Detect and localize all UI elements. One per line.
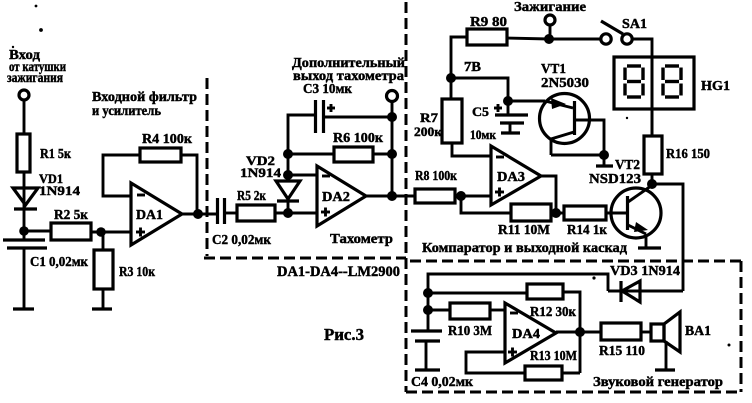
resistor R8 — [392, 169, 491, 203]
svg-text:C2 0,02мк: C2 0,02мк — [212, 233, 272, 248]
node junction — [551, 208, 561, 218]
wire: dashed bottom of left box — [204, 257, 406, 260]
wire: DA1 output — [182, 213, 217, 216]
svg-text:и усилитель: и усилитель — [92, 104, 162, 119]
op-amp DA2 — [317, 166, 366, 226]
svg-text:DA4: DA4 — [512, 327, 540, 342]
wire: dashed vertical divider — [405, 2, 408, 392]
svg-text:DA1: DA1 — [136, 208, 163, 223]
svg-text:R2 5к: R2 5к — [54, 208, 89, 223]
node junction — [446, 73, 456, 83]
svg-text:R14 1к: R14 1к — [567, 223, 608, 238]
speaker BA1 — [651, 312, 711, 370]
wire: R9 right to switch — [507, 38, 601, 39]
node: input terminal label — [7, 48, 66, 86]
svg-text:R10 3М: R10 3М — [448, 324, 492, 339]
wire — [391, 101, 394, 196]
svg-text:C4 0,02мк: C4 0,02мк — [411, 375, 474, 390]
svg-text:R4 100к: R4 100к — [142, 132, 193, 147]
node junction — [283, 208, 293, 218]
wire: oscillator top rail — [428, 274, 608, 330]
node junction — [575, 327, 585, 337]
resistor R5 — [237, 189, 275, 221]
svg-text:1N914: 1N914 — [240, 165, 282, 180]
diode VD3 — [608, 264, 683, 302]
svg-text:NSD123: NSD123 — [589, 172, 641, 187]
wire: dashed right of sound generator box — [740, 261, 743, 392]
wire: R4 to output — [181, 155, 197, 214]
resistor R4 — [140, 132, 193, 162]
node junction — [544, 34, 554, 44]
node junction — [647, 179, 657, 189]
resistor R7 — [414, 99, 462, 143]
wire: collector node to VD3 — [652, 184, 683, 291]
wire — [651, 174, 654, 184]
wire — [23, 172, 26, 188]
capacitor C5 — [470, 101, 528, 142]
op-amp DA3 — [491, 146, 541, 205]
svg-text:R3 10к: R3 10к — [119, 265, 156, 280]
resistor R13 — [525, 349, 580, 380]
svg-text:R16 150: R16 150 — [666, 147, 710, 162]
resistor R2 — [51, 208, 91, 240]
node junction — [423, 288, 433, 298]
svg-text:200к: 200к — [414, 124, 443, 139]
ground — [13, 307, 34, 310]
svg-text:R7: R7 — [420, 110, 439, 125]
svg-text:HG1: HG1 — [701, 79, 730, 94]
svg-text:DA2: DA2 — [322, 190, 350, 205]
transistor VT1 — [508, 62, 604, 155]
svg-text:Рис.3: Рис.3 — [324, 325, 364, 344]
resistor R9 — [467, 15, 507, 45]
node junction — [599, 150, 609, 160]
svg-text:R9 80: R9 80 — [470, 15, 507, 30]
svg-text:Зажигание: Зажигание — [514, 0, 586, 15]
svg-text:выход тахометра: выход тахометра — [293, 69, 404, 84]
transistor VT2 — [589, 158, 661, 247]
svg-text:R11 10М: R11 10М — [498, 223, 550, 238]
svg-text:зажигания: зажигания — [7, 71, 63, 86]
op-amp DA4 — [505, 303, 556, 363]
wire — [549, 25, 552, 39]
svg-text:VD3 1N914: VD3 1N914 — [610, 264, 680, 279]
svg-text:SA1: SA1 — [622, 17, 647, 32]
resistor R12 — [428, 284, 580, 373]
wire — [102, 289, 105, 308]
resistor R1 — [17, 134, 72, 172]
wire: DA1 minus input — [103, 155, 140, 196]
wire: dashed bottom of sound generator box — [406, 391, 741, 394]
wire — [324, 116, 392, 119]
label: additional tachometer output — [292, 56, 405, 84]
svg-text:BA1: BA1 — [685, 324, 711, 339]
node junction — [503, 96, 513, 106]
svg-text:DA1-DA4--LM2900: DA1-DA4--LM2900 — [277, 264, 400, 280]
svg-text:10мк: 10мк — [470, 127, 496, 142]
display HG1 — [614, 57, 730, 136]
display digit 2 — [663, 66, 681, 97]
capacitor C4 — [411, 331, 474, 390]
wire: dashed section border left box — [206, 78, 209, 256]
display digit 1 — [625, 66, 643, 97]
wire: R7 to DA3 minus — [452, 143, 491, 156]
resistor R6 — [288, 131, 392, 162]
wire — [225, 212, 237, 215]
capacitor C3 — [303, 82, 353, 133]
node junction — [193, 209, 203, 219]
svg-text:DA3: DA3 — [497, 170, 525, 185]
node junction — [19, 226, 29, 236]
svg-text:7В: 7В — [464, 60, 481, 75]
svg-text:Тахометр: Тахометр — [330, 232, 393, 247]
wire: C3 branch — [288, 115, 315, 154]
svg-text:R6 100к: R6 100к — [333, 131, 384, 146]
svg-text:VT1: VT1 — [541, 62, 566, 77]
resistor R15 — [599, 323, 651, 359]
svg-text:Звуковой генератор: Звуковой генератор — [593, 375, 723, 390]
svg-text:C5: C5 — [472, 104, 490, 119]
switch SA1 — [601, 17, 647, 44]
svg-text:R12 30к: R12 30к — [530, 305, 577, 320]
wire — [23, 188, 26, 240]
svg-text:R15 110: R15 110 — [599, 344, 645, 359]
diode VD1 — [13, 171, 81, 209]
wire — [24, 230, 51, 233]
capacitor C2 — [212, 198, 272, 248]
node junction — [387, 149, 397, 159]
ground — [638, 246, 661, 249]
svg-text:2N5030: 2N5030 — [541, 76, 589, 91]
svg-text:VT2: VT2 — [615, 158, 640, 173]
wire: DA3 output — [541, 176, 556, 213]
resistor R16 — [644, 136, 710, 174]
resistor R14 — [564, 206, 608, 238]
wire: DA4 plus feedback — [466, 352, 525, 373]
wire — [461, 196, 511, 213]
resistor R11 — [498, 204, 551, 238]
wire: DA2 output — [366, 195, 415, 198]
wire: to DA2 minus — [288, 174, 317, 177]
node: input terminal — [19, 90, 29, 100]
ground — [92, 307, 112, 310]
wire — [551, 212, 564, 215]
label: input filter section — [92, 90, 197, 119]
node junction — [387, 112, 397, 122]
node: tach output terminal — [387, 91, 398, 102]
svg-text:1N914: 1N914 — [39, 183, 81, 198]
svg-text:R5 2к: R5 2к — [237, 189, 267, 204]
node junction — [423, 305, 433, 315]
svg-text:С3 10мк: С3 10мк — [303, 82, 353, 97]
wire — [275, 212, 317, 215]
node: ignition terminal — [545, 15, 555, 25]
capacitor C1 — [3, 240, 89, 270]
wire: DA4 output — [556, 331, 601, 334]
wire — [23, 248, 26, 308]
node junction — [96, 227, 106, 237]
wire: dashed top of sound generator box — [410, 260, 741, 263]
resistor R3 — [94, 232, 156, 289]
diode VD2 — [240, 150, 300, 213]
wire: switch to display — [632, 39, 652, 136]
wire — [91, 231, 131, 234]
svg-text:R1 5к: R1 5к — [40, 147, 72, 162]
wire: emitter rail — [551, 154, 604, 157]
node junction — [283, 170, 293, 180]
wire: 7V rail — [451, 78, 508, 101]
node junction — [387, 191, 397, 201]
node junction — [456, 191, 466, 201]
op-amp DA1 — [131, 183, 182, 245]
resistor R10 — [428, 303, 505, 339]
node junction — [283, 149, 293, 159]
wire — [23, 100, 26, 134]
svg-text:R13 10М: R13 10М — [530, 349, 577, 364]
wire: R9 left to 7V node — [451, 37, 467, 99]
svg-text:R8 100к: R8 100к — [415, 169, 458, 184]
ground — [596, 155, 613, 166]
svg-text:Входной фильтр: Входной фильтр — [92, 90, 197, 105]
wire — [606, 212, 627, 215]
svg-text:Компаратор и выходной каскад: Компаратор и выходной каскад — [422, 241, 627, 256]
svg-text:C1 0,02мк: C1 0,02мк — [30, 255, 89, 270]
